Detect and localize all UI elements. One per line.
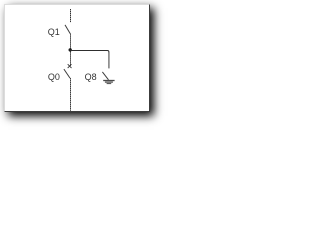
earth symbol [103,81,114,84]
wire branch horizontal with corner [71,51,109,54]
wire bottom segment [70,78,72,111]
svg-text:Q8: Q8 [85,72,97,82]
disconnector Q1 blade [65,25,70,34]
wire middle segment [70,34,72,66]
svg-text:Q1: Q1 [48,27,60,37]
svg-text:Q0: Q0 [48,72,60,82]
wire top segment [70,9,72,22]
breaker Q0 blade [64,69,70,78]
wire branch vertical [108,53,110,69]
breaker Q0 fixed contact cross [68,64,72,68]
junction node [69,48,72,51]
earthing switch Q8 blade [102,72,108,80]
